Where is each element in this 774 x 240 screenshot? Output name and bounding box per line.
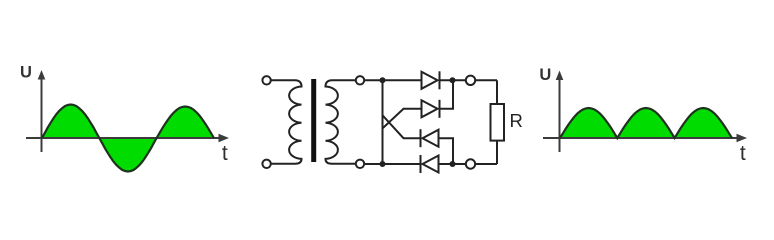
svg-text:t: t (222, 142, 228, 165)
svg-text:t: t (740, 142, 746, 165)
svg-text:U: U (539, 66, 551, 84)
svg-text:R: R (510, 110, 523, 131)
svg-text:U: U (20, 64, 32, 82)
